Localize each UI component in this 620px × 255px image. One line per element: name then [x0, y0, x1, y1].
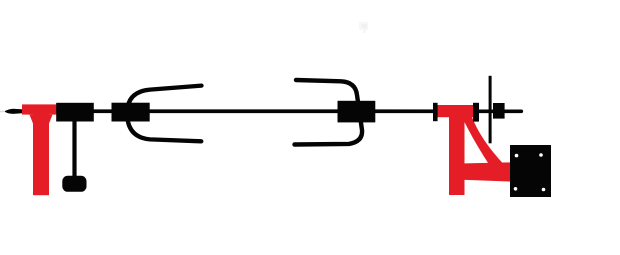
faint ghost line at far left [0, 110, 5, 112]
fork collar C2 (right fork clamp on rod) [338, 101, 376, 123]
mounting plate P1 (black, with 4 bolt holes) [510, 145, 551, 197]
stop collar T1 (small black tick on rod) [433, 103, 438, 121]
gear collar B1 (black box on rod, left) [56, 103, 94, 122]
bearing block S1 (small black square on rod) [493, 103, 505, 119]
handle bracket H1 (red T, left) [22, 104, 58, 195]
support bracket H2 (red, right: top bar, post, diagonal brace, arm) [438, 105, 511, 195]
wire: thin vertical axle line [489, 76, 492, 144]
spit point tip (left end of rod) [4, 109, 22, 114]
faint eraser smudge near top centre [359, 22, 368, 33]
wire: main spit rod [14, 109, 521, 113]
stop collar T2 (small black tick on rod) [473, 103, 479, 122]
counterweight W1 [62, 176, 86, 192]
rotisserie fork F2 (right, tines point left) [295, 80, 363, 145]
rotisserie fork F1 (left, tines point right) [127, 86, 201, 142]
fork collar C1 (left fork clamp on rod) [112, 103, 150, 122]
wire: counterweight hanger rod [72, 120, 76, 177]
